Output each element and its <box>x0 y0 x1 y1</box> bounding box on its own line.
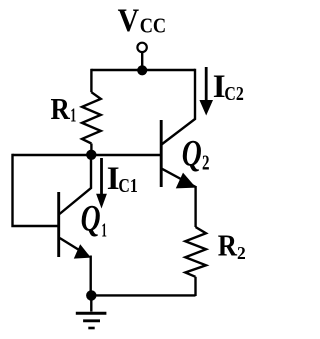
resistor R1 <box>82 92 101 143</box>
transistor Q1 base bar <box>57 192 60 257</box>
resistor R2 <box>185 227 206 277</box>
svg-text:R: R <box>51 91 71 126</box>
label Ic1 <box>107 161 138 197</box>
wire R1 bottom lead <box>90 144 92 156</box>
wire Q2 emitter with arrow <box>162 169 196 227</box>
svg-text:C1: C1 <box>118 175 137 197</box>
svg-text:1: 1 <box>70 105 76 126</box>
wire feedback loop left <box>13 154 59 226</box>
svg-text:R: R <box>218 228 238 263</box>
svg-text:C2: C2 <box>224 83 243 105</box>
svg-text:2: 2 <box>202 150 210 174</box>
wire Vcc stub <box>141 53 143 70</box>
Vcc terminal circle <box>137 43 146 52</box>
svg-text:1: 1 <box>101 219 107 241</box>
ground junction dot <box>86 290 96 300</box>
svg-text:CC: CC <box>140 14 167 38</box>
label Q1 <box>81 198 107 241</box>
label R2 <box>218 228 246 263</box>
wire Q1 collector <box>60 153 92 214</box>
wire base rail node A <box>13 154 162 156</box>
current arrow Ic2 <box>199 67 213 116</box>
wire R1 top lead <box>90 69 92 92</box>
svg-text:Q: Q <box>182 134 202 175</box>
wire Q2 collector <box>162 69 196 145</box>
svg-text:V: V <box>118 3 140 39</box>
current arrow Ic1 <box>96 158 107 209</box>
wire top rail <box>91 69 195 71</box>
label R1 <box>51 91 77 126</box>
label Ic2 <box>213 69 244 105</box>
wire Q1 emitter with arrow <box>60 238 91 295</box>
label Q2 <box>182 134 210 175</box>
wire R2 bottom lead <box>194 277 196 296</box>
junction dot at Vcc node <box>137 65 147 75</box>
svg-text:2: 2 <box>237 243 246 263</box>
label Vcc <box>118 3 167 39</box>
svg-text:Q: Q <box>81 198 101 239</box>
transistor Q2 base bar <box>160 120 163 187</box>
ground symbol <box>76 295 107 328</box>
node A junction dot <box>86 150 96 160</box>
wire ground rail <box>91 294 195 296</box>
